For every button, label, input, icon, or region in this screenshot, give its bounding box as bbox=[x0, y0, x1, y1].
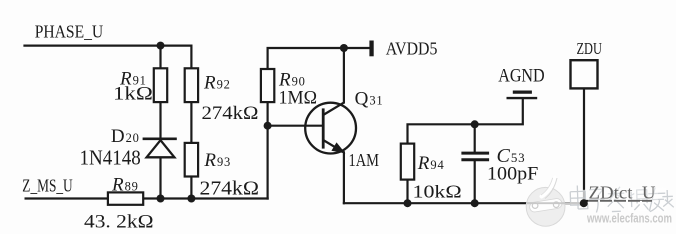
wire ZDU box to rail bbox=[583, 88, 585, 203]
junction dot base node bbox=[264, 122, 272, 130]
resistor R93 body bbox=[185, 143, 198, 177]
svg-text:R92: R92 bbox=[203, 73, 231, 94]
svg-text:PHASE_U: PHASE_U bbox=[35, 22, 104, 42]
junction dot C53 / right rail bbox=[471, 199, 479, 207]
wire R90 top lead and AVDD5 horizontal bbox=[268, 48, 370, 69]
svg-text:1kΩ: 1kΩ bbox=[113, 84, 153, 105]
watermark logo capsule bbox=[529, 198, 563, 213]
wire R94 bottom lead bbox=[406, 180, 408, 204]
wire C53 top lead bbox=[474, 124, 476, 151]
capacitor C53 plates bbox=[461, 153, 489, 160]
diode D20 triangle bbox=[147, 140, 175, 157]
junction dot AVDD5 / collector bbox=[340, 44, 348, 52]
svg-text:R89: R89 bbox=[111, 175, 139, 196]
transistor Q31 collector diagonal bbox=[324, 102, 345, 114]
svg-text:R93: R93 bbox=[203, 150, 231, 171]
wire R92 to R93 bbox=[190, 102, 192, 143]
svg-text:Q31: Q31 bbox=[355, 89, 384, 110]
svg-text:D20: D20 bbox=[111, 126, 140, 147]
resistor R90 body bbox=[261, 69, 274, 102]
svg-text:43. 2kΩ: 43. 2kΩ bbox=[84, 212, 154, 233]
svg-text:R90: R90 bbox=[278, 70, 306, 91]
wire R91 top lead bbox=[159, 46, 161, 69]
wire emitter vertical bbox=[343, 152, 345, 203]
junction dot ZDU wire / right rail bbox=[580, 199, 588, 207]
wire collector vertical bbox=[343, 48, 345, 103]
watermark chinese ghost text 电子发烧友 bbox=[569, 185, 673, 213]
resistor R89 body horizontal bbox=[108, 192, 143, 204]
wire C53 bottom lead bbox=[474, 161, 476, 203]
svg-text:AGND: AGND bbox=[498, 66, 545, 87]
svg-text:1N4148: 1N4148 bbox=[80, 145, 141, 169]
wire faint rail through watermark bbox=[527, 202, 580, 204]
svg-text:274kΩ: 274kΩ bbox=[200, 179, 260, 200]
svg-text:100pF: 100pF bbox=[487, 164, 538, 185]
watermark logo circle bbox=[526, 178, 565, 227]
wire PHASE_U horizontal top-left bbox=[25, 46, 192, 69]
svg-text:R94: R94 bbox=[417, 153, 445, 174]
junction dot PHASE_U / R91 bbox=[157, 42, 165, 50]
junction dot R94 / right rail bbox=[404, 199, 412, 207]
ground symbol AGND bbox=[507, 92, 538, 98]
svg-text:1AM: 1AM bbox=[349, 150, 380, 170]
power symbol AVDD5 bar bbox=[369, 41, 373, 57]
wire left bottom rail Z_MS_U net bbox=[26, 197, 268, 199]
svg-text:274kΩ: 274kΩ bbox=[202, 103, 259, 124]
wire R94 C53 AGND top link bbox=[408, 100, 523, 144]
svg-text:AVDD5: AVDD5 bbox=[386, 39, 438, 59]
port box ZDU bbox=[571, 60, 598, 88]
svg-text:ZDU: ZDU bbox=[577, 39, 602, 58]
wire right bottom rail emitter net bbox=[344, 202, 584, 204]
diode D20 cathode bar bbox=[143, 138, 177, 141]
watermark logo end dots bbox=[532, 203, 538, 209]
junction dot C53 top node bbox=[471, 120, 479, 128]
transistor Q31 emitter diagonal bbox=[324, 141, 344, 153]
transistor Q31 emitter arrowhead bbox=[332, 143, 344, 152]
wire transistor base bbox=[268, 125, 323, 127]
junction dot diode / left rail bbox=[157, 195, 165, 203]
svg-text:10kΩ: 10kΩ bbox=[413, 182, 462, 202]
svg-text:Z_MS_U: Z_MS_U bbox=[22, 175, 73, 195]
resistor R91 body bbox=[154, 68, 167, 102]
wire vertical branch x=267 rail to R90 bbox=[267, 102, 269, 198]
resistor R94 body bbox=[401, 144, 414, 180]
wire diode to left rail bbox=[159, 158, 161, 199]
watermark veil over ZDtct_U bbox=[588, 183, 658, 202]
net label ZDtct_U underline bbox=[586, 200, 652, 202]
svg-text:www.elecfans.com: www.elecfans.com bbox=[586, 212, 672, 226]
transistor Q31 circle bbox=[305, 103, 356, 154]
resistor R92 body bbox=[185, 68, 198, 102]
junction dot R93 / left rail bbox=[187, 195, 195, 203]
svg-text:1MΩ: 1MΩ bbox=[279, 89, 318, 109]
watermark logo tail swoosh bbox=[542, 178, 555, 197]
transistor Q31 base bar bbox=[322, 108, 325, 148]
wire R93 bottom lead bbox=[190, 177, 192, 199]
wire R91 bottom lead to diode bbox=[159, 102, 161, 138]
